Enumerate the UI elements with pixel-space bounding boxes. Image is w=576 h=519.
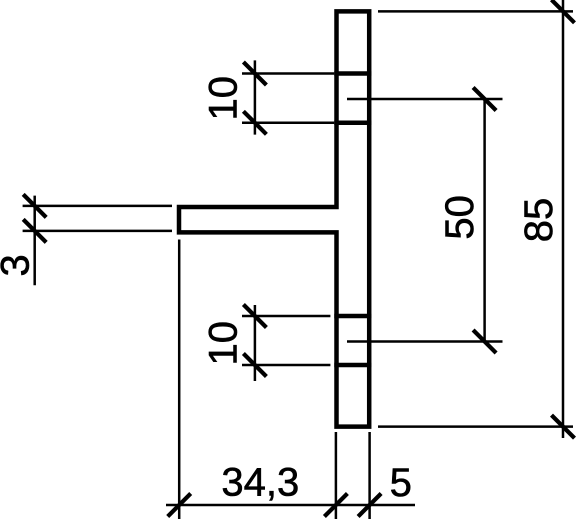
svg-text:5: 5 [390, 461, 412, 505]
svg-text:10: 10 [202, 321, 246, 366]
svg-text:34,3: 34,3 [221, 461, 299, 505]
svg-text:85: 85 [517, 198, 561, 243]
svg-text:50: 50 [438, 195, 482, 240]
svg-text:10: 10 [202, 76, 246, 121]
svg-text:3: 3 [0, 254, 37, 276]
